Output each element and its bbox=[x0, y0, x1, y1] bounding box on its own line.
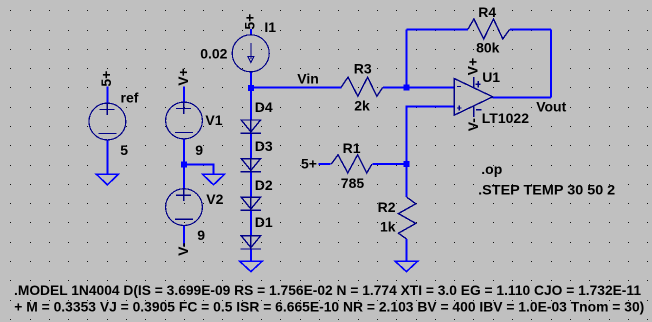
svg-text:V2: V2 bbox=[206, 191, 223, 207]
voltage source ref circle bbox=[89, 103, 126, 140]
svg-text:1k: 1k bbox=[380, 219, 396, 235]
svg-text:ref: ref bbox=[121, 89, 139, 105]
op-amp U1 V+ pin stub bbox=[473, 77, 475, 88]
diode D4 bbox=[241, 120, 262, 133]
junction node inverting input / R3 / R4 bbox=[403, 85, 409, 91]
resistor R2 bbox=[398, 197, 415, 239]
svg-text:80k: 80k bbox=[476, 39, 500, 55]
ground under R2 bbox=[395, 261, 417, 271]
wire V2 bottom bbox=[183, 226, 185, 247]
svg-text:D2: D2 bbox=[255, 177, 273, 193]
op-amp U1 V- pin minus mark bbox=[476, 109, 481, 111]
wire diode chain 4 bbox=[250, 210, 252, 235]
wire I1 bottom bbox=[250, 71, 252, 88]
svg-text:D3: D3 bbox=[255, 138, 273, 154]
wire op-amp output bbox=[493, 96, 552, 98]
wire feedback vertical left bbox=[405, 29, 407, 87]
op-amp U1 non-inverting input mark bbox=[457, 106, 462, 111]
op-amp U1 inverting input mark bbox=[457, 86, 461, 88]
svg-text:V-: V- bbox=[175, 242, 191, 256]
wire R1 to node bbox=[373, 163, 407, 165]
wire R4 top right bbox=[510, 28, 551, 30]
voltage source V1 circle bbox=[166, 102, 203, 139]
wire diode chain 3 bbox=[250, 172, 252, 197]
wire node to ground right bbox=[184, 164, 214, 174]
svg-text:5: 5 bbox=[120, 142, 128, 158]
svg-text:5+: 5+ bbox=[98, 71, 114, 87]
junction node R1 / R2 / op-amp plus bbox=[403, 161, 409, 167]
wire ref bottom bbox=[106, 140, 108, 174]
op-amp U1 triangle bbox=[454, 79, 492, 116]
wire Vin row left bbox=[251, 87, 342, 89]
svg-text:D1: D1 bbox=[255, 214, 273, 230]
ground right of V1 node bbox=[202, 174, 224, 185]
svg-text:R3: R3 bbox=[354, 61, 372, 77]
svg-text:.MODEL 1N4004 D(IS = 3.699E-: .MODEL 1N4004 D(IS = 3.699E-09 RS = 1.75… bbox=[14, 283, 641, 298]
svg-text:.op: .op bbox=[481, 161, 502, 177]
svg-text:R2: R2 bbox=[378, 199, 396, 215]
diode D2 bbox=[241, 197, 262, 210]
ground under diode chain bbox=[240, 261, 262, 271]
svg-text:9: 9 bbox=[197, 227, 205, 243]
resistor R4 bbox=[468, 19, 510, 39]
svg-text:785: 785 bbox=[341, 175, 365, 191]
wire node down to R2 bbox=[405, 164, 407, 197]
ground under ref bbox=[96, 174, 118, 185]
wire ref top stub bbox=[106, 87, 108, 104]
wire V1 bottom to node bbox=[183, 139, 185, 165]
svg-text:0.02: 0.02 bbox=[200, 46, 227, 62]
voltage source V2 circle bbox=[166, 189, 203, 226]
svg-text:2k: 2k bbox=[354, 98, 370, 114]
wire feedback vertical right bbox=[550, 29, 552, 97]
op-amp U1 V- pin stub bbox=[473, 106, 475, 117]
diode D1 bbox=[241, 236, 262, 249]
wire I1 top stub bbox=[250, 29, 252, 35]
svg-text:.STEP TEMP 30 50 2: .STEP TEMP 30 50 2 bbox=[478, 181, 615, 197]
svg-text:+ M = 0.3353 VJ = 0.3905 FC: + M = 0.3353 VJ = 0.3905 FC = 0.5 ISR = … bbox=[14, 299, 644, 314]
svg-text:9: 9 bbox=[195, 142, 203, 158]
svg-text:V+: V+ bbox=[465, 58, 481, 76]
op-amp U1 V+ pin plus mark bbox=[476, 81, 481, 87]
junction node V1 bottom bbox=[181, 161, 187, 167]
wire node to V2 bbox=[183, 165, 185, 189]
wire 5+ flag to R1 bbox=[318, 163, 330, 165]
svg-text:Vout: Vout bbox=[536, 98, 566, 114]
wire diode chain 2 bbox=[250, 133, 252, 158]
svg-text:5+: 5+ bbox=[301, 156, 317, 172]
svg-text:U1: U1 bbox=[482, 69, 500, 85]
svg-text:Vin: Vin bbox=[297, 70, 319, 86]
svg-text:5+: 5+ bbox=[242, 14, 258, 30]
wire R2 bottom to ground bbox=[405, 239, 407, 261]
resistor R1 bbox=[331, 155, 372, 173]
junction node Vin at diode chain bbox=[248, 85, 254, 91]
current source I1 circle bbox=[232, 35, 269, 72]
svg-text:I1: I1 bbox=[264, 19, 276, 35]
wire diode chain 1 bbox=[250, 88, 252, 120]
svg-text:V+: V+ bbox=[175, 68, 191, 86]
svg-text:R1: R1 bbox=[343, 140, 361, 156]
wire Vin row right to op-amp bbox=[383, 87, 454, 89]
wire R4 top left bbox=[406, 28, 468, 30]
svg-text:V-: V- bbox=[465, 118, 481, 132]
resistor R3 bbox=[341, 77, 383, 96]
svg-text:V1: V1 bbox=[205, 112, 222, 128]
svg-text:LT1022: LT1022 bbox=[482, 110, 529, 126]
wire diode chain 5 bbox=[250, 249, 252, 261]
svg-text:D4: D4 bbox=[255, 99, 273, 115]
diode D3 bbox=[241, 159, 262, 172]
wire node up to op-amp plus input bbox=[406, 107, 454, 165]
wire V1 top stub bbox=[183, 87, 185, 103]
svg-text:R4: R4 bbox=[478, 4, 496, 20]
